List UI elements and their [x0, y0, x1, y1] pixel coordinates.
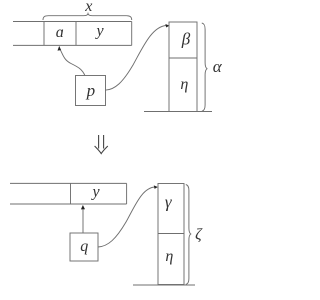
cell a/y divider	[75, 22, 77, 46]
top band top line	[13, 21, 132, 23]
svg-text:x: x	[84, 0, 92, 15]
box p	[76, 76, 106, 106]
top stack outline	[169, 22, 197, 112]
top stack divider	[169, 57, 197, 59]
bottom band bottom line	[10, 203, 127, 205]
svg-text:η: η	[180, 76, 188, 93]
top band bottom line	[13, 44, 132, 46]
arrowhead at cell y	[81, 205, 85, 209]
box q	[70, 233, 98, 261]
svg-text:p: p	[86, 81, 96, 100]
bottom stack divider	[158, 233, 184, 235]
top band right border	[131, 22, 133, 46]
svg-text:ɑ: ɑ	[56, 24, 64, 41]
svg-text:β: β	[181, 29, 191, 48]
arrowhead at bottom stack	[154, 185, 158, 189]
svg-text:η: η	[165, 248, 173, 265]
svg-text:ζ: ζ	[195, 227, 203, 244]
bottom stack outline	[158, 184, 184, 285]
bottom band right border	[126, 183, 128, 204]
arrow q to cell y line	[82, 209, 84, 234]
arrowhead at top stack	[165, 24, 169, 28]
arrowhead at cell a	[58, 46, 62, 51]
svg-text:y: y	[94, 22, 104, 39]
svg-text:y: y	[90, 183, 100, 200]
bottom cell y left border	[70, 183, 72, 204]
top ground line	[144, 111, 212, 113]
cell a left border	[43, 22, 45, 46]
svg-text:q: q	[80, 238, 88, 255]
double down arrow	[95, 135, 108, 154]
bottom ground line	[133, 284, 195, 286]
arrow p to cell a	[60, 49, 85, 76]
overbrace x	[43, 14, 132, 20]
s-curve p to stack	[105, 26, 166, 91]
svg-text:α: α	[213, 57, 223, 76]
right brace alpha	[202, 23, 207, 111]
s-curve q to bottom stack	[98, 187, 156, 247]
bottom band top line	[10, 182, 127, 184]
svg-text:γ: γ	[165, 193, 173, 212]
right brace zeta	[186, 185, 191, 285]
